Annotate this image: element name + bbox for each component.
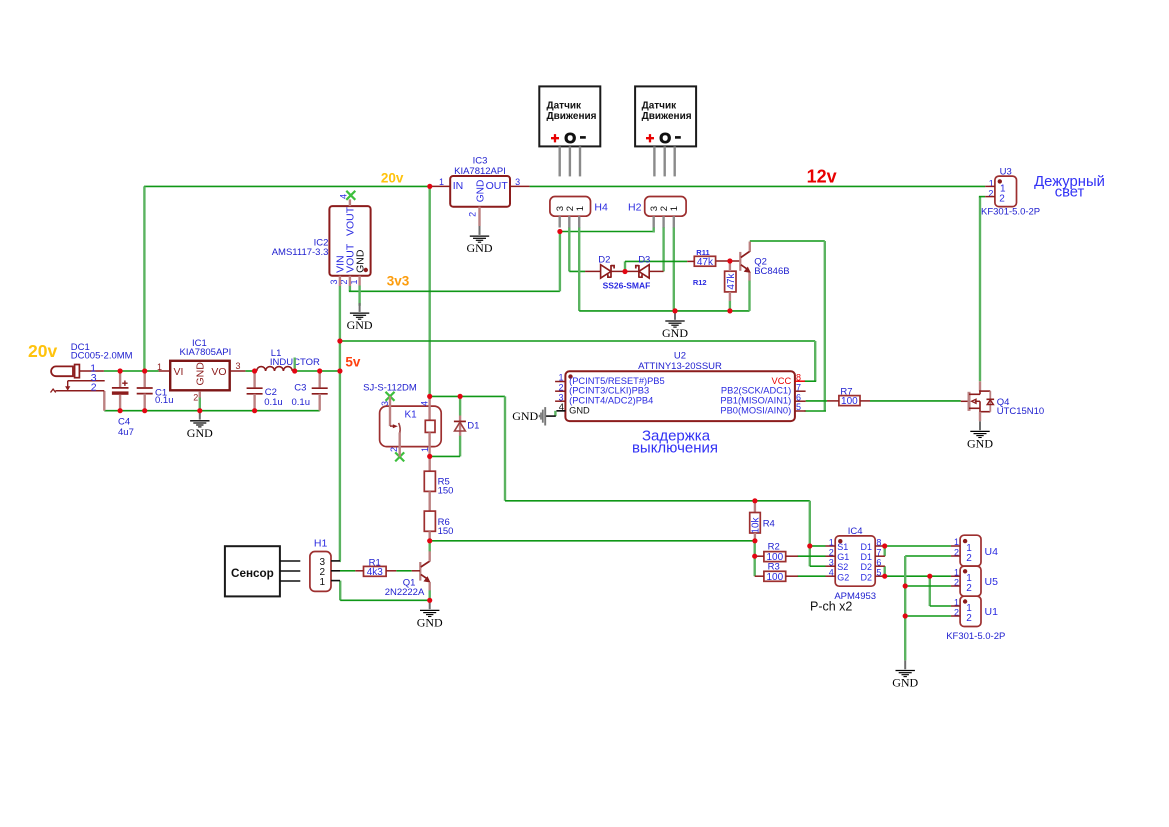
transistor Q2: [740, 242, 789, 281]
svg-text:H2: H2: [628, 202, 642, 214]
svg-text:4k3: 4k3: [367, 567, 384, 578]
wire D1 to K1 pin1: [430, 455, 460, 457]
wire R4 node down to R2 R3: [754, 541, 756, 576]
wire DC pin2 drop: [103, 391, 105, 411]
connector DC1: [51, 342, 133, 394]
capacitor C2: [247, 371, 283, 411]
svg-text:4: 4: [339, 194, 349, 199]
resistor R6: [424, 491, 453, 540]
svg-text:C4: C4: [118, 417, 130, 428]
wire H4 pin1 to gnd rail: [578, 227, 580, 311]
regulator IC2: [272, 191, 371, 306]
wire bottom gnd rail: [104, 410, 319, 412]
svg-text:2: 2: [966, 553, 972, 564]
junction IC4 pin8: [882, 543, 887, 548]
svg-text:PB1(MISO/AIN1): PB1(MISO/AIN1): [720, 396, 791, 406]
svg-text:D1: D1: [860, 542, 872, 552]
svg-text:GND: GND: [512, 409, 538, 423]
wire 5v IC1 to L1: [245, 370, 254, 372]
svg-text:Движения: Движения: [642, 111, 692, 122]
svg-text:6: 6: [876, 558, 881, 568]
ground under IC2: [347, 303, 373, 332]
svg-text:1: 1: [558, 373, 563, 383]
wire H1 pin3 riser 3v3: [340, 560, 341, 562]
wire to U2 pin5: [805, 410, 827, 412]
wire H2 pin2 down to D3: [662, 227, 664, 271]
svg-text:2N2222A: 2N2222A: [385, 587, 425, 598]
svg-text:PB0(MOSI/AIN0): PB0(MOSI/AIN0): [720, 405, 791, 415]
wire feed down right: [809, 501, 811, 566]
resistor R11: [687, 248, 715, 268]
svg-text:VCC: VCC: [772, 376, 792, 386]
svg-text:D3: D3: [638, 255, 650, 266]
svg-text:7: 7: [876, 548, 881, 558]
svg-text:Движения: Движения: [547, 111, 597, 122]
junction K1 pin1: [427, 454, 432, 459]
svg-text:KIA7805API: KIA7805API: [180, 347, 232, 358]
junction gnd rail R12: [727, 308, 732, 313]
svg-text:0.1u: 0.1u: [155, 395, 174, 406]
ground under Q1: [417, 600, 443, 629]
regulator IC1: [157, 338, 245, 403]
svg-text:3: 3: [236, 361, 241, 371]
svg-text:5: 5: [796, 402, 801, 412]
wire VIN vertical 5v: [339, 286, 341, 561]
svg-text:3: 3: [829, 558, 834, 568]
wire pin8 pin7 tie: [884, 546, 886, 556]
wire pin5 pin6 tie: [884, 566, 886, 576]
wire to U1 pin2: [905, 615, 951, 617]
svg-text:SJ-S-112DM: SJ-S-112DM: [363, 383, 417, 394]
wire H1 pin2 to R1: [340, 570, 355, 572]
wire IC1 gnd pin: [199, 397, 201, 411]
wire H2 pin3 riser: [653, 227, 655, 233]
resistor R12: [693, 261, 737, 301]
relay K1: [363, 383, 441, 462]
svg-text:U5: U5: [985, 576, 999, 588]
svg-text:4u7: 4u7: [118, 427, 134, 438]
svg-text:D1: D1: [860, 552, 872, 562]
PARTS: [28, 86, 1105, 689]
junction D2 D3: [622, 269, 627, 274]
wire Q2 base node: [716, 260, 740, 262]
junction U5 pin2: [903, 583, 908, 588]
junction VIN node: [337, 338, 342, 343]
svg-text:2: 2: [558, 382, 563, 392]
capacitor C4: [112, 371, 134, 438]
svg-text:D1: D1: [467, 421, 479, 432]
junction IC1 gnd: [197, 408, 202, 413]
wire H4 pin2 to D2: [569, 270, 585, 272]
svg-text:7: 7: [796, 382, 801, 392]
svg-text:47k: 47k: [726, 272, 737, 289]
wire to S2: [810, 565, 826, 567]
wire to U1 pin1: [930, 605, 951, 607]
svg-text:2: 2: [389, 447, 399, 452]
capacitor C1: [137, 371, 174, 411]
svg-text:IC3: IC3: [473, 156, 488, 167]
svg-text:G1: G1: [837, 552, 849, 562]
svg-text:2: 2: [91, 382, 97, 394]
wire VCC drop: [814, 341, 816, 381]
resistor R7: [827, 387, 870, 408]
motion sensor block 1: [539, 86, 600, 176]
wire K1 pin4 to D1 to 20v drop: [430, 395, 505, 397]
diode D3: [603, 255, 664, 291]
wire U5 pin1 to U1 pin1: [929, 576, 931, 606]
wire pin2 net vertical: [904, 556, 906, 660]
svg-text:3: 3: [558, 392, 563, 402]
wire 3v3 up to H4 pin3: [559, 232, 561, 292]
capacitor C3: [292, 371, 328, 411]
svg-text:100: 100: [766, 572, 783, 583]
svg-text:выключения: выключения: [632, 439, 718, 456]
svg-text:U1: U1: [985, 606, 999, 618]
wire U4 pin2 net horizontal: [905, 555, 951, 557]
dual pmos IC4: [810, 526, 885, 614]
annotation standby light: [1034, 174, 1105, 201]
wire Q1 emitter down: [429, 590, 431, 600]
regulator IC3: [430, 156, 530, 227]
svg-text:AMS1117-3.3: AMS1117-3.3: [272, 247, 329, 258]
svg-text:1: 1: [439, 177, 444, 187]
svg-text:150: 150: [438, 486, 454, 497]
svg-text:H4: H4: [594, 202, 608, 214]
connector U3: [981, 166, 1040, 217]
svg-text:2: 2: [966, 583, 972, 594]
wire 3v3 horizontal: [349, 290, 560, 292]
svg-text:U2: U2: [674, 350, 686, 361]
svg-text:3: 3: [380, 401, 390, 406]
connector U1: [946, 596, 1005, 642]
junction C4 top: [118, 368, 123, 373]
svg-text:5: 5: [876, 568, 881, 578]
connector U4: [951, 535, 998, 566]
wire 20v rail drop to input: [143, 186, 145, 371]
svg-text:Датчик: Датчик: [547, 100, 583, 111]
resistor R1: [355, 558, 396, 579]
wire H2 pin1 to gnd rail: [673, 227, 675, 311]
svg-text:4: 4: [829, 568, 834, 578]
svg-text:1: 1: [320, 577, 326, 588]
diode D2: [585, 255, 625, 279]
junction K1 pin4: [427, 394, 432, 399]
svg-text:SS26-SMAF: SS26-SMAF: [603, 281, 651, 291]
wire DC input to IC1: [104, 370, 159, 372]
svg-text:K1: K1: [405, 410, 418, 421]
junction U5 pin1: [927, 574, 932, 579]
svg-text:DC005-2.0MM: DC005-2.0MM: [71, 351, 133, 362]
ground at U2 pin4 sideways: [512, 407, 565, 425]
svg-text:O: O: [564, 130, 576, 147]
svg-text:8: 8: [876, 537, 881, 547]
svg-text:8: 8: [796, 373, 801, 383]
svg-text:0.1u: 0.1u: [292, 397, 311, 408]
svg-text:6: 6: [796, 392, 801, 402]
svg-text:D2: D2: [860, 572, 872, 582]
wire collector net vertical: [824, 241, 826, 411]
ground below U1 column: [892, 660, 918, 689]
wire H4 pin2 down: [568, 227, 570, 271]
svg-text:OUT: OUT: [486, 180, 509, 192]
sensor block: [225, 546, 300, 596]
svg-text:VOUT: VOUT: [345, 206, 357, 236]
wire R3 right to G2: [798, 575, 826, 577]
wire 3v3 from IC2: [349, 286, 351, 292]
svg-text:G2: G2: [837, 572, 849, 582]
svg-text:+: +: [646, 131, 654, 147]
junction R4 top: [752, 498, 757, 503]
svg-text:2: 2: [468, 212, 478, 217]
junction R11 R12 base: [727, 258, 732, 263]
wire U3 pin2 down to Q4 drain: [979, 197, 981, 382]
mcu U2 ATTINY13: [555, 350, 806, 421]
svg-text:20v: 20v: [28, 341, 57, 361]
svg-text:3: 3: [329, 279, 339, 284]
ground under Q4: [967, 421, 993, 450]
wire H4 pin3 to H2 pin3: [560, 231, 654, 233]
svg-text:1: 1: [420, 447, 430, 452]
junction S1 tap: [807, 543, 812, 548]
wire 12v from IC3 to U3: [530, 185, 986, 187]
wire 5v L1 to VIN node: [295, 370, 341, 372]
wire U3 pin2 corner: [979, 196, 985, 198]
resistor R4: [750, 501, 775, 541]
wire R7 to Q4 gate: [870, 400, 961, 402]
wire R12 bottom: [729, 301, 731, 311]
svg-text:20v: 20v: [381, 170, 404, 185]
junction C2 top: [252, 368, 257, 373]
wire VCC to pin8: [804, 380, 816, 382]
resistor R2: [755, 542, 798, 564]
junction L1 right: [292, 368, 297, 373]
wire U2 pin6 to R7: [806, 400, 827, 402]
wire feed horizontal: [505, 500, 810, 502]
wire D1out node to U4 pin1: [885, 545, 951, 547]
header H1: [310, 537, 340, 591]
wire to U5 pin2: [905, 585, 951, 587]
junction H4 pin3: [557, 229, 562, 234]
junction gnd rail H2pin1: [672, 308, 677, 313]
svg-text:0.1u: 0.1u: [264, 397, 283, 408]
junction C1 bottom: [142, 408, 147, 413]
svg-text:D2: D2: [860, 562, 872, 572]
svg-text:VI: VI: [174, 366, 184, 378]
svg-text:KF301-5.0-2P: KF301-5.0-2P: [981, 206, 1040, 217]
mosfet Q4: [961, 381, 1044, 421]
wire D2 D3 node to R11 riser: [624, 261, 626, 271]
wire to S1: [810, 545, 826, 547]
wire Q1 collector up: [429, 541, 431, 552]
wire 20v rail horizontal: [144, 185, 430, 187]
svg-text:P-ch x2: P-ch x2: [810, 599, 852, 613]
junction C1 top: [142, 368, 147, 373]
junction 5v VIN: [337, 368, 342, 373]
junction IC4 pin5: [882, 574, 887, 579]
svg-text:5v: 5v: [345, 355, 361, 370]
wire Q2 collector top: [750, 240, 825, 242]
junction R4 bottom: [752, 538, 757, 543]
svg-text:BC846B: BC846B: [754, 266, 789, 277]
ground under IC3: [467, 226, 493, 255]
svg-text:47k: 47k: [697, 257, 714, 268]
junction D1 top: [458, 394, 463, 399]
wire node to R11: [625, 260, 687, 262]
svg-text:PB2(SCK/ADC1): PB2(SCK/ADC1): [721, 386, 791, 396]
header H4: [550, 197, 608, 228]
junction U1 pin2: [903, 613, 908, 618]
junction Q1 emitter: [427, 598, 432, 603]
svg-text:GND: GND: [195, 362, 207, 386]
wire R1 to Q1 base: [396, 570, 411, 572]
inductor L1: [257, 348, 320, 371]
svg-text:O: O: [659, 130, 671, 147]
svg-text:1: 1: [575, 206, 586, 211]
svg-text:100: 100: [841, 396, 858, 407]
resistor R5: [424, 456, 453, 496]
junction C2 bottom: [252, 408, 257, 413]
svg-text:(PCINT5/RESET#)PB5: (PCINT5/RESET#)PB5: [569, 376, 665, 386]
transistor Q1: [385, 551, 431, 598]
wire D1 bottom lead: [459, 436, 461, 457]
wire D1 top lead: [459, 396, 461, 415]
junction 20v IC3: [427, 184, 432, 189]
svg-text:3v3: 3v3: [387, 274, 410, 289]
wire gnd rail under sensors: [579, 310, 749, 312]
ground under IC1: [187, 411, 213, 440]
svg-text:S1: S1: [837, 542, 848, 552]
svg-text:3: 3: [515, 177, 520, 187]
wire H1 pin1 to Q1 emitter: [340, 599, 430, 601]
svg-text:S2: S2: [837, 562, 848, 572]
svg-text:1: 1: [669, 206, 680, 211]
svg-text:(PCINT4/ADC2)PB4: (PCINT4/ADC2)PB4: [569, 396, 653, 406]
svg-text:U4: U4: [985, 546, 999, 558]
ground at sensor rail: [662, 311, 688, 340]
wire R6 bottom to R4: [430, 540, 755, 542]
resistor R3: [755, 562, 798, 583]
motion sensor block 2: [635, 86, 696, 176]
svg-text:2: 2: [193, 392, 198, 402]
svg-text:2: 2: [999, 193, 1005, 204]
wire drop to S1 S2 feed: [504, 396, 506, 500]
svg-text:Датчик: Датчик: [642, 100, 678, 111]
wire 5v to U2 VCC horizontal: [340, 340, 815, 342]
svg-text:R12: R12: [693, 278, 707, 287]
svg-text:1: 1: [829, 537, 834, 547]
wire 20v to relay vertical: [429, 186, 431, 396]
svg-text:R4: R4: [763, 518, 775, 529]
svg-text:H1: H1: [314, 537, 328, 549]
svg-text:KF301-5.0-2P: KF301-5.0-2P: [946, 631, 1005, 642]
wire R2 right to G1: [798, 555, 826, 557]
header H2: [628, 197, 686, 228]
svg-text:150: 150: [438, 526, 454, 537]
svg-text:свет: свет: [1055, 184, 1085, 200]
junction R2 left: [752, 554, 757, 559]
svg-text:UTC15N10: UTC15N10: [997, 406, 1045, 417]
svg-text:4: 4: [419, 401, 429, 406]
junction R6 bottom: [427, 538, 432, 543]
svg-text:GND: GND: [569, 406, 590, 416]
connector U5: [951, 566, 998, 596]
svg-text:(PCINT3/CLKI)PB3: (PCINT3/CLKI)PB3: [569, 386, 649, 396]
svg-text:2: 2: [829, 548, 834, 558]
svg-text:+: +: [551, 131, 559, 147]
svg-text:12v: 12v: [807, 166, 837, 186]
wire D2out node to U5 pin1: [885, 575, 951, 577]
wire H1 pin1 down: [339, 581, 341, 601]
svg-text:C3: C3: [294, 383, 306, 394]
diode D1 zener: [454, 416, 480, 436]
junction C3 top: [317, 368, 322, 373]
svg-text:VO: VO: [211, 366, 226, 378]
annotation delay off: [632, 427, 718, 456]
junction C4 bottom: [118, 408, 123, 413]
svg-text:2: 2: [966, 613, 972, 624]
svg-text:10k: 10k: [750, 516, 761, 533]
svg-text:Сенсор: Сенсор: [231, 567, 274, 580]
svg-text:IN: IN: [453, 180, 464, 192]
wire Q2 emitter down: [748, 280, 750, 311]
svg-text:GND: GND: [476, 180, 487, 203]
